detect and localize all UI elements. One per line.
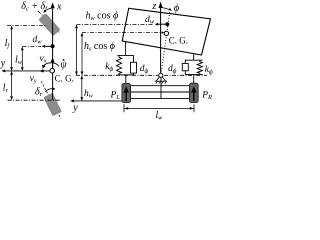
svg-text:ψ: ψ xyxy=(60,59,67,70)
svg-text:PL: PL xyxy=(110,90,121,101)
axle center line xyxy=(160,77,162,98)
right suspension link lower xyxy=(193,74,195,83)
steering angle arc xyxy=(44,8,52,11)
sprung mass body xyxy=(122,8,210,55)
rear steering dashed line xyxy=(41,81,61,118)
h_s cos phi dash-dot line xyxy=(82,32,163,34)
axle beam middle line xyxy=(131,91,190,93)
svg-text:lf: lf xyxy=(5,38,11,50)
velocity arrow v_x xyxy=(52,61,54,68)
left suspension bottom bar xyxy=(117,74,134,76)
z-axis xyxy=(160,7,162,75)
rear wheel xyxy=(44,93,62,116)
svg-text:δc + δf: δc + δf xyxy=(21,1,48,13)
svg-text:vx: vx xyxy=(40,54,47,65)
svg-text:kϕ: kϕ xyxy=(205,65,213,76)
roll axis dotted line xyxy=(161,10,170,76)
svg-text:PR: PR xyxy=(201,91,212,102)
front wheel xyxy=(39,14,60,36)
wire x-axis vehicle centerline xyxy=(52,7,54,101)
wind pressure point node xyxy=(51,44,55,48)
svg-text:lw: lw xyxy=(155,110,163,120)
right suspension top bar xyxy=(185,59,203,61)
front axle dash-dot reference line xyxy=(7,25,46,27)
spring k_phi left xyxy=(116,55,121,74)
x-axis arrowhead xyxy=(51,2,55,8)
svg-text:x: x xyxy=(56,2,62,13)
spring k_phi right xyxy=(197,60,202,74)
svg-text:δr: δr xyxy=(35,87,43,99)
ground y-axis xyxy=(72,100,122,102)
y-axis arrowhead xyxy=(2,69,6,72)
svg-text:lw: lw xyxy=(15,54,23,66)
axle beam bottom line xyxy=(131,97,190,99)
svg-text:dw: dw xyxy=(33,35,43,46)
roll pivot joint xyxy=(159,73,163,77)
svg-text:lr: lr xyxy=(3,82,9,94)
svg-text:hw: hw xyxy=(84,89,93,100)
damper d_phi left xyxy=(133,55,135,62)
y-axis line xyxy=(3,70,49,72)
wind force arrow d_w xyxy=(44,45,53,47)
svg-text:hs cos ϕ: hs cos ϕ xyxy=(84,41,115,53)
svg-text:z: z xyxy=(151,1,156,12)
dimension line l_r xyxy=(11,72,13,99)
dimension line h_w cos xyxy=(76,25,78,74)
svg-text:C. G.: C. G. xyxy=(55,74,74,84)
left suspension link upper xyxy=(125,42,127,56)
track width dimension ticks xyxy=(123,104,125,112)
yaw rate arc psi-dot xyxy=(44,63,59,67)
svg-text:vy: vy xyxy=(30,74,37,85)
velocity arrow v_y head xyxy=(39,69,43,72)
sprung mass C.G. node xyxy=(164,31,168,35)
roll angle arc xyxy=(161,7,170,9)
svg-text:dϕ: dϕ xyxy=(140,64,149,75)
left tire xyxy=(122,83,131,102)
svg-text:dϕ: dϕ xyxy=(168,64,177,75)
h_w cos phi dash-dot line xyxy=(77,23,154,25)
right suspension link upper xyxy=(193,54,195,61)
svg-text:y: y xyxy=(0,58,6,69)
front steering axis dash-dot line xyxy=(38,11,60,33)
dimension line h_w lower xyxy=(81,76,83,100)
roll axis baseline dash-dot xyxy=(76,74,207,76)
C.G. node xyxy=(50,68,55,73)
right tire force arrow P_R xyxy=(193,91,195,101)
svg-text:C. G.: C. G. xyxy=(169,36,188,46)
left suspension top bar xyxy=(117,54,133,56)
dimension line h_s cos xyxy=(81,33,83,74)
track width dimension line xyxy=(124,107,194,109)
right tire xyxy=(189,83,198,102)
svg-text:hw cos ϕ: hw cos ϕ xyxy=(86,11,119,23)
svg-text:y: y xyxy=(72,102,78,113)
right suspension bottom bar xyxy=(185,73,203,75)
damper d_phi right xyxy=(184,60,186,63)
rear steering angle arc xyxy=(45,89,53,92)
rear axle dash-dot reference line xyxy=(8,99,61,101)
left suspension link lower xyxy=(125,75,127,84)
left tire force arrow P_L xyxy=(125,91,127,101)
axle beam top line xyxy=(131,85,190,87)
dimension line l_w xyxy=(21,47,23,70)
dimension line l_f xyxy=(11,27,13,71)
svg-text:ϕ: ϕ xyxy=(174,3,180,14)
wind force arrow d_w xyxy=(157,23,167,25)
d_w reference dash-dot line xyxy=(22,45,41,47)
wind pressure node xyxy=(165,22,169,26)
svg-text:kϕ: kϕ xyxy=(105,62,113,73)
